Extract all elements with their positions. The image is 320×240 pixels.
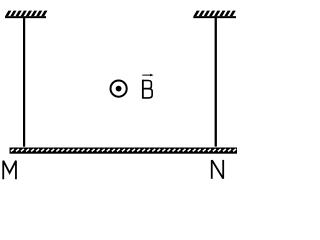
left ceiling hatching xyxy=(5,11,47,17)
label N xyxy=(212,160,223,179)
left ceiling support bar xyxy=(5,16,46,18)
label M xyxy=(3,161,16,180)
right ceiling hatching xyxy=(193,11,235,17)
right vertical wire xyxy=(215,18,217,147)
magnetic field symbol (dot) xyxy=(116,86,122,92)
label B xyxy=(143,80,152,99)
vector arrow over B xyxy=(142,74,153,77)
rod hatch dashes xyxy=(11,149,236,151)
left vertical wire xyxy=(23,18,25,147)
conductor rod MN (bottom hatched bar) xyxy=(10,148,238,154)
right ceiling support bar xyxy=(193,16,236,18)
magnetic field symbol (circle) xyxy=(111,81,127,97)
